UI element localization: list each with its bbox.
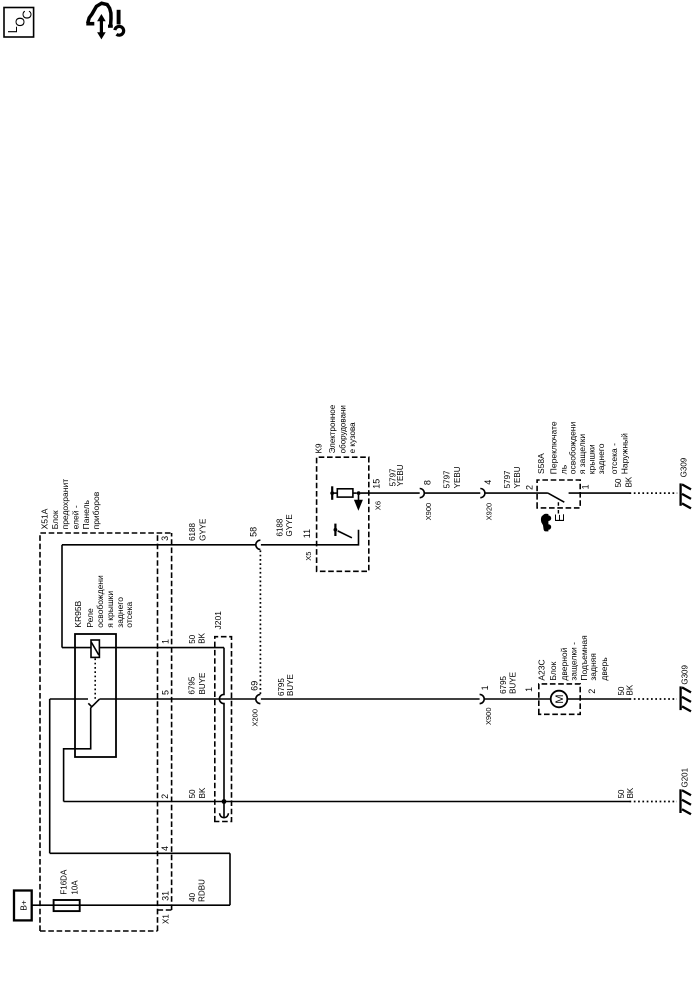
K9 driver output junction dot — [357, 491, 361, 495]
svg-text:GYYE: GYYE — [198, 519, 207, 541]
svg-text:E: E — [553, 514, 567, 522]
svg-text:B+: B+ — [18, 900, 28, 911]
X920 connector symbol (pin 4) — [480, 489, 485, 498]
wire D: ground rail 50 BK (x186.5) — [64, 801, 630, 803]
svg-text:2: 2 — [587, 689, 597, 694]
wire A: coil feed 6188 GYYE (x443.2) — [62, 544, 256, 546]
svg-text:50: 50 — [617, 686, 626, 695]
K9 internal switch bar — [334, 524, 336, 536]
ground G309 (lower) — [681, 686, 691, 711]
J201 splice dashed box — [215, 637, 232, 822]
svg-text:RDBU: RDBU — [198, 879, 207, 902]
svg-text:6795: 6795 — [277, 678, 286, 696]
svg-text:дверь: дверь — [599, 657, 609, 681]
svg-text:X5: X5 — [304, 552, 313, 561]
svg-text:BK: BK — [626, 787, 635, 798]
svg-text:1: 1 — [524, 687, 534, 692]
svg-text:X920: X920 — [485, 503, 494, 521]
LOC legend box — [4, 8, 34, 38]
svg-text:X6: X6 — [373, 501, 382, 510]
svg-text:50: 50 — [188, 634, 197, 643]
svg-text:G201: G201 — [681, 767, 690, 787]
S58A actuator car glyph — [541, 514, 548, 532]
svg-text:2: 2 — [524, 485, 534, 490]
svg-text:50: 50 — [614, 478, 623, 487]
svg-text:S58A: S58A — [536, 453, 546, 474]
svg-text:5797: 5797 — [503, 470, 512, 488]
wire 5797 YEBU: K9 output down (x494.9) — [361, 492, 420, 494]
liftgate icon: key shaft — [117, 10, 121, 25]
svg-text:X1: X1 — [161, 914, 170, 924]
svg-text:G309: G309 — [679, 457, 688, 477]
X1 connector channel dashed line — [158, 533, 172, 910]
S58A actuator dash-dot link — [557, 502, 559, 514]
relay KR95B box — [75, 634, 116, 757]
svg-text:1: 1 — [580, 484, 590, 489]
K9 driver terminal bar — [331, 486, 333, 500]
S58A switch lower stub — [569, 492, 630, 494]
svg-text:6795: 6795 — [499, 675, 508, 693]
svg-text:8: 8 — [423, 480, 433, 485]
svg-text:Блок: Блок — [50, 510, 60, 529]
svg-text:G309: G309 — [681, 664, 690, 684]
liftgate icon: key ring — [115, 26, 124, 35]
svg-text:4: 4 — [160, 846, 170, 851]
svg-text:11: 11 — [302, 529, 312, 538]
J201 end cap — [220, 813, 229, 817]
svg-text:BK: BK — [626, 684, 635, 695]
svg-text:я защелки: я защелки — [577, 434, 587, 475]
K9 driver output arrow — [358, 495, 360, 500]
svg-text:6795: 6795 — [188, 676, 197, 694]
svg-text:е кузова: е кузова — [348, 422, 357, 453]
svg-text:BK: BK — [197, 632, 206, 643]
svg-text:1: 1 — [480, 685, 490, 690]
fuse F16DA — [54, 900, 80, 911]
svg-text:BUYE: BUYE — [509, 672, 518, 694]
svg-text:50: 50 — [188, 789, 197, 798]
svg-text:A23C: A23C — [536, 659, 546, 680]
svg-text:58: 58 — [248, 527, 258, 537]
S58A switch dashed box — [537, 480, 580, 508]
J201 splice junction dot — [222, 799, 227, 804]
svg-text:YEBU: YEBU — [453, 466, 462, 488]
svg-text:69: 69 — [249, 681, 259, 691]
svg-text:защелки -: защелки - — [569, 642, 579, 681]
K9 driver rect — [333, 492, 337, 494]
svg-text:BK: BK — [198, 787, 207, 798]
svg-text:6188: 6188 — [188, 523, 197, 541]
liftgate icon: right foot — [108, 25, 113, 28]
svg-text:освобождени: освобождени — [95, 575, 105, 628]
svg-text:X900: X900 — [484, 708, 493, 726]
wire B: coil feed/return rail (x340.4) — [62, 647, 91, 649]
svg-text:6188: 6188 — [276, 518, 285, 536]
B+ battery feed box — [14, 891, 32, 921]
svg-text:BUYE: BUYE — [198, 673, 207, 695]
svg-text:отсека -: отсека - — [609, 443, 619, 474]
svg-text:отсека: отсека — [124, 601, 134, 627]
svg-text:K9: K9 — [315, 443, 324, 453]
svg-text:Электронное: Электронное — [328, 404, 337, 453]
svg-text:J201: J201 — [213, 611, 223, 630]
liftgate icon: double arrow shaft — [100, 18, 103, 36]
K9 internal switch dot — [334, 528, 338, 532]
ground G309 (upper) — [681, 483, 691, 508]
svg-text:Переключате: Переключате — [548, 421, 558, 474]
svg-text:оборудовани: оборудовани — [339, 405, 348, 453]
K9 internal switch blade — [338, 531, 352, 538]
relay contact blade — [91, 699, 100, 708]
relay coil rect — [91, 640, 99, 657]
svg-text:BK: BK — [624, 476, 633, 487]
svg-text:Реле: Реле — [85, 608, 95, 628]
svg-text:YEBU: YEBU — [396, 464, 405, 486]
ground G201 — [681, 789, 692, 814]
svg-text:X200: X200 — [250, 709, 259, 727]
svg-text:Наружный: Наружный — [620, 433, 630, 474]
svg-text:дверной: дверной — [559, 647, 569, 680]
svg-text:31: 31 — [161, 891, 171, 901]
svg-text:1: 1 — [161, 639, 171, 644]
svg-text:50: 50 — [617, 789, 626, 798]
X200 connector symbol on wire C (pin 69) — [256, 694, 261, 703]
svg-text:задняя: задняя — [588, 653, 598, 681]
wire: return rail up into X51A (portrait wire E) — [50, 852, 230, 854]
svg-text:X900: X900 — [424, 503, 433, 521]
svg-text:предохранит: предохранит — [60, 479, 70, 530]
A23C dashed box (liftgate latch) — [539, 684, 580, 714]
X900 connector symbol on wire C (pin 1) — [480, 694, 485, 703]
relay contact common: pivot to pole — [64, 708, 91, 802]
svg-text:15: 15 — [371, 479, 381, 489]
svg-text:YEBU: YEBU — [513, 466, 522, 488]
K9 body control module dashed box — [317, 457, 369, 571]
liftgate icon: hatch outline — [88, 3, 111, 25]
X200 alignment dotted link — [259, 550, 261, 694]
relay coil dotted actuator link — [94, 657, 96, 698]
svg-text:освобождени: освобождени — [567, 422, 577, 475]
svg-text:Блок: Блок — [548, 661, 558, 680]
svg-text:KR95B: KR95B — [73, 600, 83, 627]
svg-text:X51A: X51A — [40, 508, 50, 529]
X51A fuse block dashed box — [40, 533, 172, 931]
liftgate icon overlay (portrait coords) — [82, 0, 132, 46]
svg-text:елей -: елей - — [71, 505, 81, 529]
wire: bottom jog connecting feed rail to return rail — [229, 853, 231, 905]
relay contact blade tick — [88, 703, 91, 706]
svg-text:C: C — [21, 10, 35, 19]
wire: top run to relay contact feed — [49, 699, 51, 853]
svg-text:приборов: приборов — [91, 491, 101, 529]
wire: motor to ground G309 — [567, 698, 629, 700]
svg-text:3: 3 — [160, 536, 170, 541]
liftgate icon: arrow head down — [97, 32, 106, 39]
S58A switch blade — [548, 493, 564, 502]
svg-text:заднего: заднего — [596, 443, 606, 474]
motor M circle — [551, 691, 568, 708]
svg-text:4: 4 — [483, 480, 493, 485]
svg-text:2: 2 — [160, 794, 170, 799]
svg-text:BUYE: BUYE — [286, 674, 295, 696]
svg-text:F16DA: F16DA — [60, 869, 69, 895]
liftgate icon: left foot — [86, 22, 94, 26]
wire 40 RDBU: B+ rail down (portrait wire F) — [32, 904, 230, 906]
wire C upper segment into relay contact — [50, 698, 88, 700]
X200 connector symbol on wire A (pin 58) — [256, 540, 261, 549]
svg-text:M: M — [554, 694, 566, 703]
svg-text:10A: 10A — [70, 880, 79, 895]
svg-text:Панель: Панель — [81, 499, 91, 529]
wire C: relay output down to X200 (6795 BUYE) — [99, 698, 255, 700]
svg-text:я крышки: я крышки — [105, 591, 115, 628]
wire: coil feed top run to wire A — [61, 545, 63, 648]
relay coil diagonal — [91, 642, 99, 655]
svg-text:5797: 5797 — [442, 470, 451, 488]
liftgate icon: arrow head up — [97, 14, 106, 21]
svg-text:5: 5 — [161, 690, 171, 695]
svg-text:GYYE: GYYE — [285, 514, 294, 536]
X900 connector symbol (pin 8) — [420, 489, 425, 498]
J201 splice wire with hop over wire C — [219, 648, 224, 818]
svg-text:крышки: крышки — [587, 444, 597, 474]
svg-text:40: 40 — [188, 892, 197, 901]
svg-text:L: L — [6, 26, 20, 33]
